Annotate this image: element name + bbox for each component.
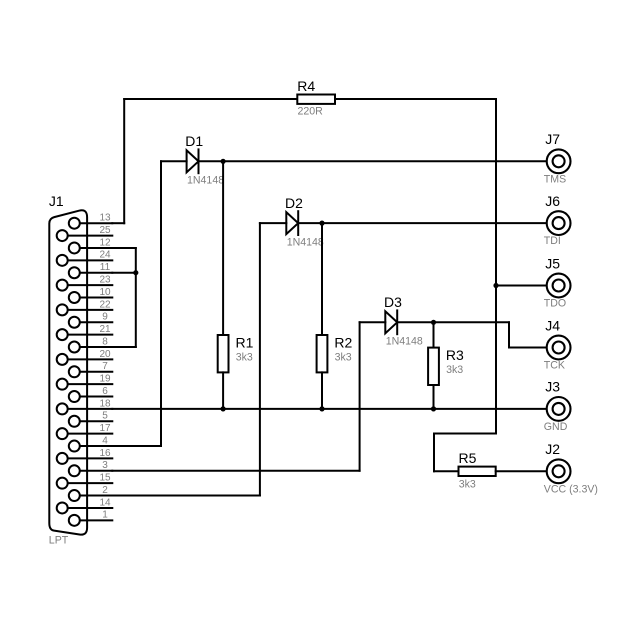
svg-text:J1: J1 — [49, 193, 64, 209]
svg-text:D2: D2 — [285, 195, 303, 211]
svg-text:21: 21 — [99, 324, 111, 335]
svg-text:3k3: 3k3 — [459, 479, 476, 491]
svg-text:4: 4 — [102, 435, 108, 446]
svg-text:20: 20 — [99, 349, 111, 360]
svg-text:5: 5 — [102, 411, 108, 422]
svg-text:18: 18 — [99, 398, 111, 409]
svg-text:J6: J6 — [545, 193, 560, 209]
svg-text:2: 2 — [102, 485, 108, 496]
svg-text:220R: 220R — [298, 106, 324, 118]
svg-text:J5: J5 — [545, 255, 560, 271]
svg-text:1N4148: 1N4148 — [386, 336, 423, 348]
svg-text:22: 22 — [99, 299, 111, 310]
svg-text:3k3: 3k3 — [335, 352, 352, 364]
svg-text:14: 14 — [99, 497, 111, 508]
svg-text:3k3: 3k3 — [236, 352, 253, 364]
svg-text:D3: D3 — [384, 294, 402, 310]
svg-text:7: 7 — [102, 361, 108, 372]
svg-text:10: 10 — [99, 287, 111, 298]
svg-text:13: 13 — [99, 213, 111, 224]
svg-text:19: 19 — [99, 374, 111, 385]
svg-text:R5: R5 — [459, 450, 477, 466]
svg-text:3: 3 — [102, 460, 108, 471]
svg-text:24: 24 — [99, 250, 111, 261]
svg-text:TCK: TCK — [544, 360, 565, 372]
svg-text:9: 9 — [102, 312, 108, 323]
svg-text:J4: J4 — [545, 317, 560, 333]
svg-text:D1: D1 — [185, 133, 203, 149]
svg-text:1: 1 — [102, 510, 108, 521]
svg-text:16: 16 — [99, 448, 111, 459]
svg-text:23: 23 — [99, 275, 111, 286]
svg-text:6: 6 — [102, 386, 108, 397]
svg-text:J3: J3 — [545, 379, 560, 395]
svg-text:3k3: 3k3 — [446, 364, 463, 376]
svg-text:LPT: LPT — [49, 534, 69, 546]
svg-text:VCC (3.3V): VCC (3.3V) — [544, 483, 598, 495]
svg-text:R3: R3 — [446, 347, 464, 363]
svg-text:R4: R4 — [297, 78, 315, 94]
svg-text:TDO: TDO — [544, 298, 566, 310]
svg-text:1N4148: 1N4148 — [287, 236, 324, 248]
svg-text:GND: GND — [544, 421, 568, 433]
svg-text:TMS: TMS — [544, 173, 566, 185]
svg-text:J2: J2 — [545, 441, 560, 457]
svg-text:11: 11 — [100, 262, 111, 273]
svg-text:R2: R2 — [334, 334, 352, 350]
svg-text:25: 25 — [99, 225, 111, 236]
svg-text:12: 12 — [99, 237, 111, 248]
svg-text:1N4148: 1N4148 — [187, 175, 224, 187]
svg-text:17: 17 — [99, 423, 111, 434]
svg-text:R1: R1 — [236, 334, 254, 350]
svg-text:TDI: TDI — [544, 235, 561, 247]
svg-text:J7: J7 — [545, 131, 560, 147]
svg-text:8: 8 — [102, 336, 108, 347]
svg-text:15: 15 — [99, 473, 111, 484]
